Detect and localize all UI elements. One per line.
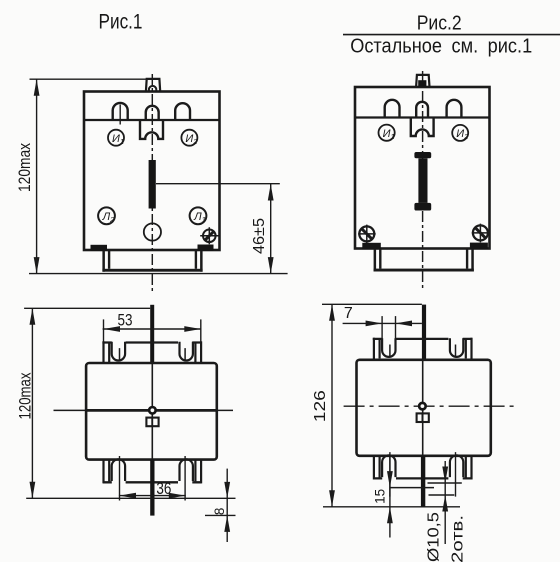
svg-text:Л2: Л2 [102,211,116,224]
svg-text:7: 7 [344,305,353,322]
svg-text:Рис.2: Рис.2 [417,12,462,34]
svg-text:8: 8 [212,508,227,516]
svg-text:Остальное см. рис.1: Остальное см. рис.1 [350,35,532,58]
svg-text:36: 36 [156,480,171,498]
svg-text:Ø10,5: Ø10,5 [426,512,443,562]
svg-text:И1: И1 [383,128,395,141]
svg-text:53: 53 [118,311,133,330]
svg-text:2отв.: 2отв. [450,515,467,562]
svg-text:120max: 120max [16,372,35,419]
svg-text:И1: И1 [112,133,124,146]
svg-text:Рис.1: Рис.1 [99,10,143,33]
svg-text:120max: 120max [15,143,34,192]
svg-text:46±5: 46±5 [251,218,268,254]
svg-text:15: 15 [373,489,388,504]
svg-text:Л1: Л1 [193,211,206,224]
svg-text:126: 126 [312,390,329,422]
